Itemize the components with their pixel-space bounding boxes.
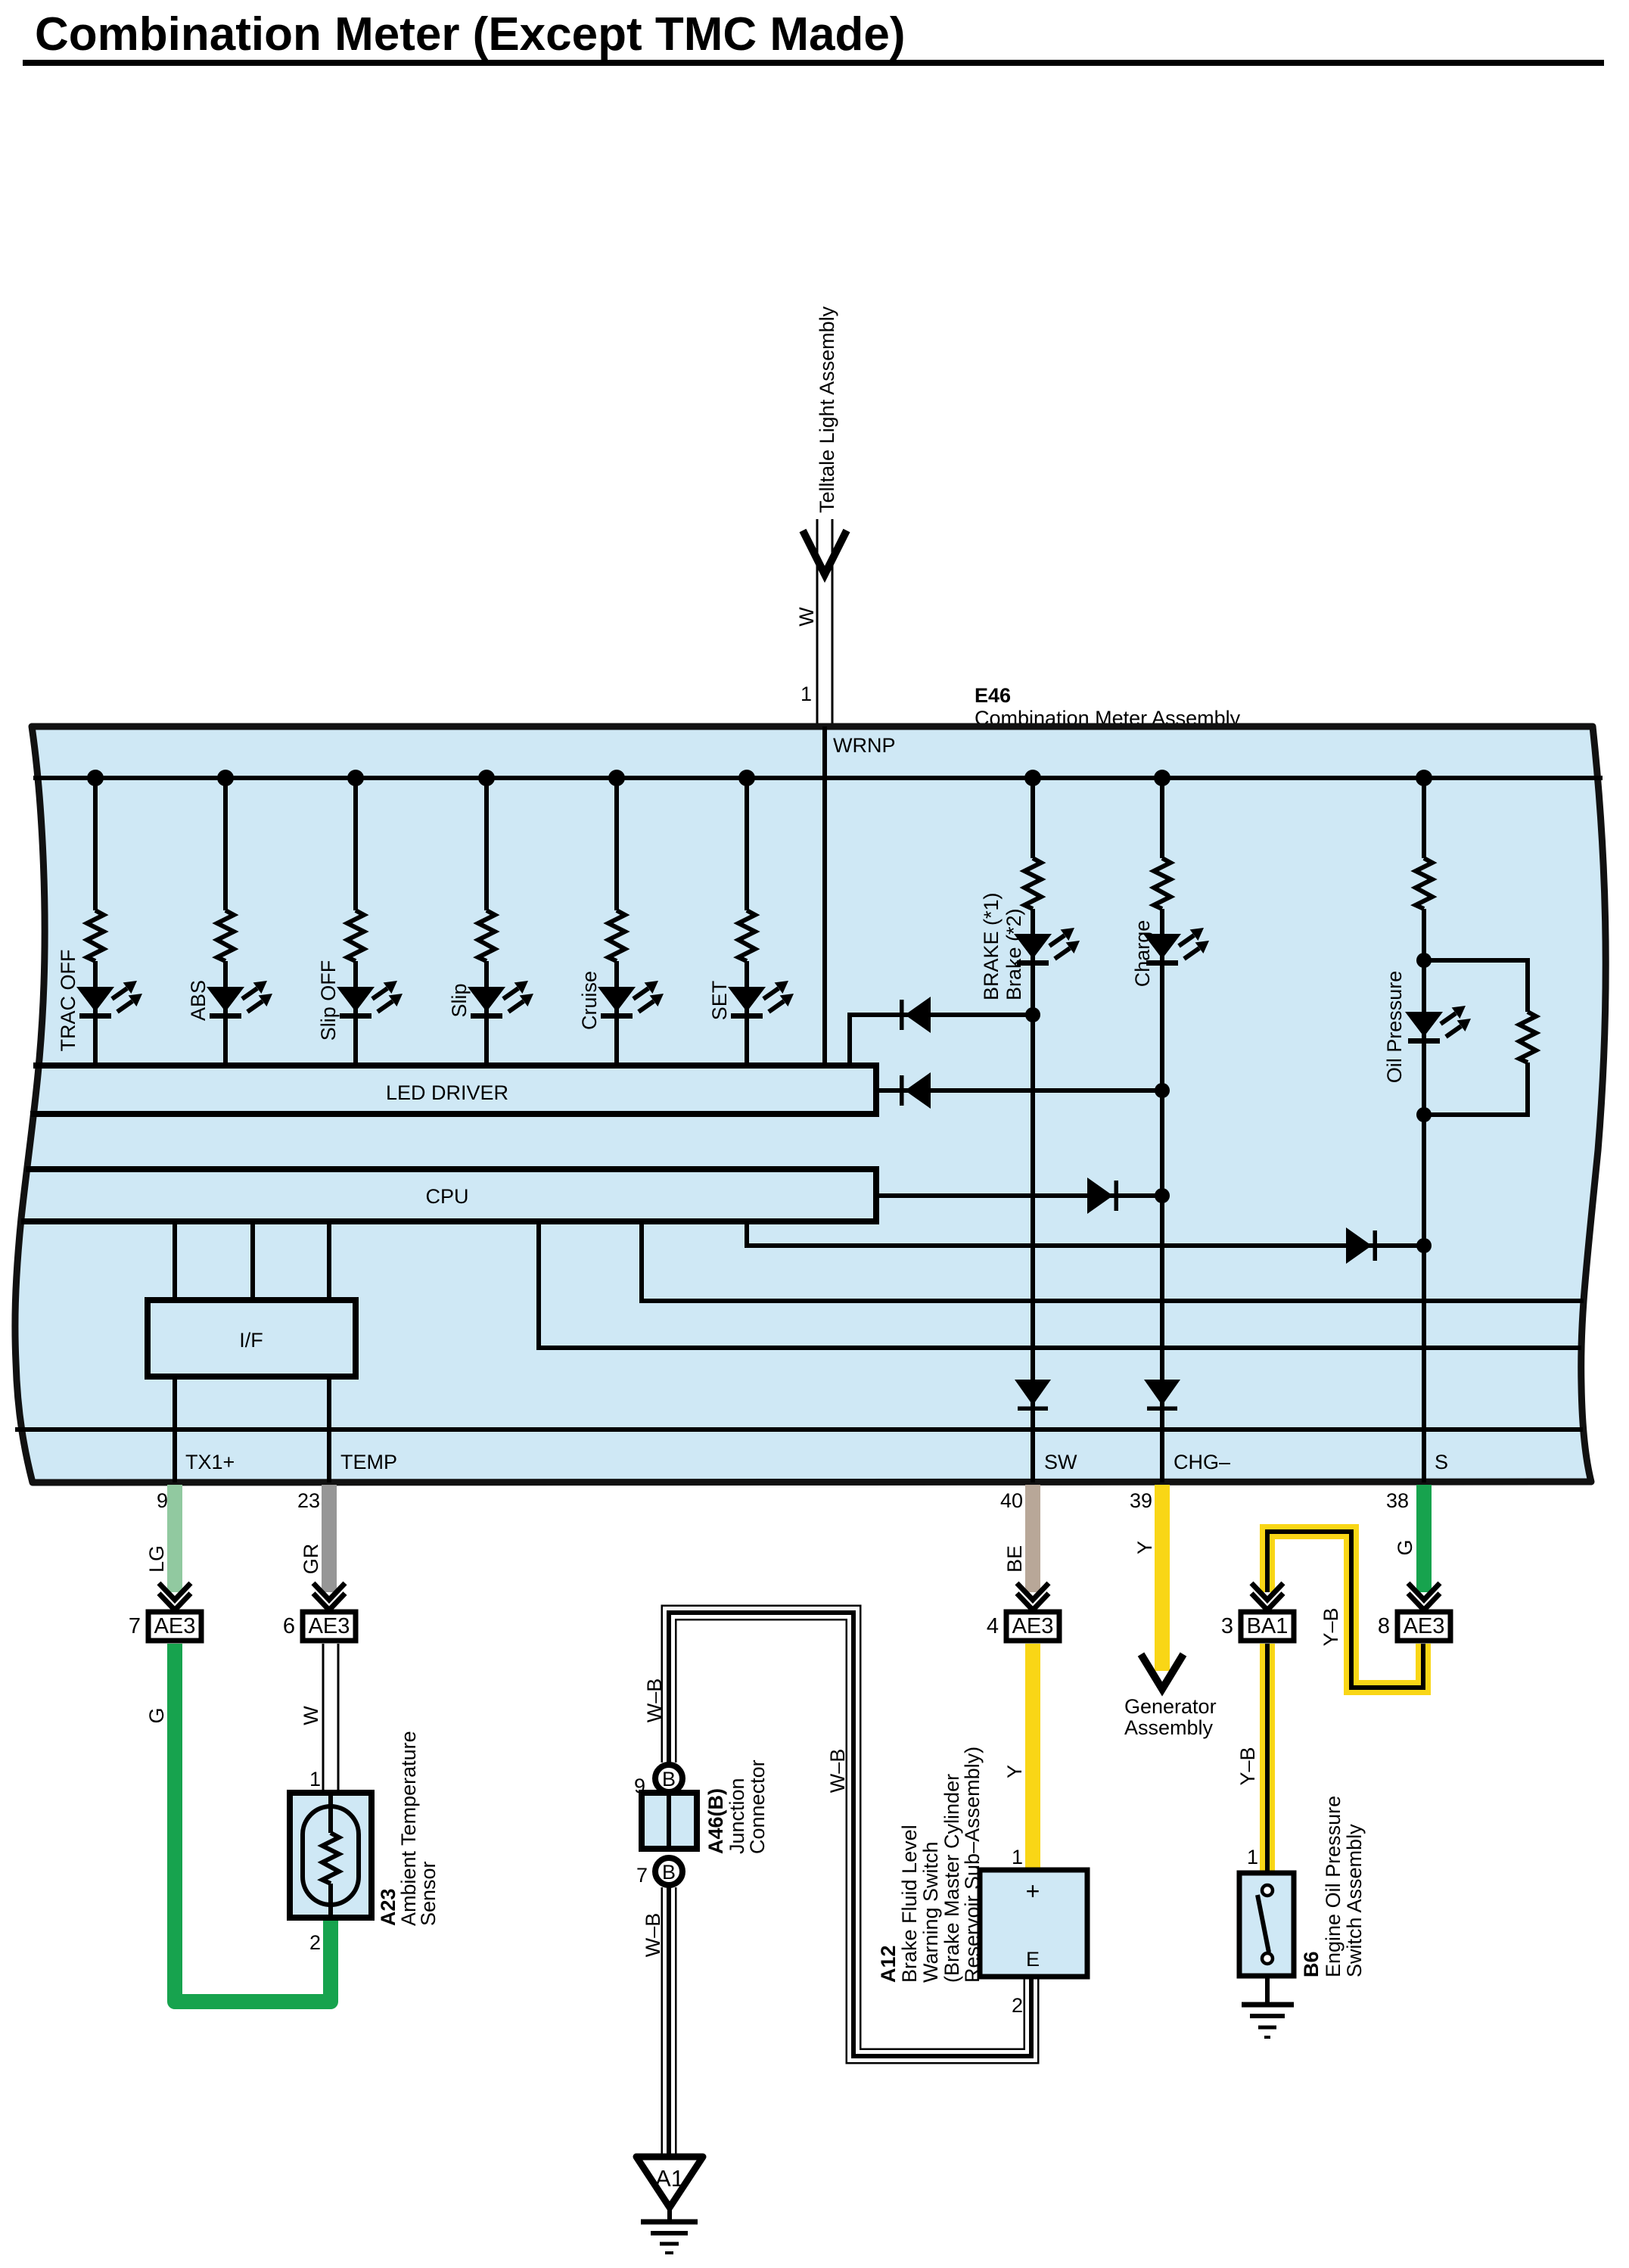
svg-text:CHG–: CHG– xyxy=(1174,1451,1230,1473)
svg-text:8: 8 xyxy=(1378,1614,1390,1638)
wire Oil Pressure/S column xyxy=(1422,778,1426,1482)
arrow from telltale light assembly xyxy=(803,530,847,574)
node junction Charge on WRNP bus xyxy=(1154,770,1170,786)
svg-text:Warning Switch: Warning Switch xyxy=(919,1841,942,1983)
svg-text:SW: SW xyxy=(1044,1451,1077,1473)
LED indicator BRAKE xyxy=(1014,928,1080,966)
svg-text:1: 1 xyxy=(309,1768,321,1790)
wire WRNP vertical from pin 1 xyxy=(822,726,827,1066)
wire Y-B from 3 BA1 to B6 pin 1 xyxy=(1260,1644,1275,1873)
svg-text:E46: E46 xyxy=(975,684,1011,707)
resistor TRAC_OFF xyxy=(87,910,104,961)
node junction Oil Pressure on WRNP bus xyxy=(1416,770,1432,786)
connector 3 BA1 xyxy=(1221,1612,1294,1641)
resistor BRAKE xyxy=(1024,858,1041,909)
svg-text:AE3: AE3 xyxy=(1012,1614,1054,1638)
LED indicator SET xyxy=(728,981,794,1019)
svg-text:BA1: BA1 xyxy=(1247,1614,1289,1638)
resistor Slip_OFF xyxy=(347,910,364,961)
wire CPU to I/F left xyxy=(173,1221,177,1300)
LED indicator Oil Pressure xyxy=(1405,1006,1471,1044)
wire from LED DRIVER top to diode D1 xyxy=(850,1015,1033,1066)
svg-text:7: 7 xyxy=(129,1614,141,1638)
connector 4 AE3 xyxy=(987,1612,1059,1641)
thermistor resistor inside A23 xyxy=(322,1833,339,1884)
node junction Charge/D2 xyxy=(1155,1083,1170,1098)
svg-text:E: E xyxy=(1026,1948,1040,1971)
wire BE (pin 40) xyxy=(1025,1485,1040,1592)
svg-text:1: 1 xyxy=(1012,1846,1023,1868)
resistor Charge xyxy=(1154,858,1170,909)
wire TX1+ from I/F to pin 9 xyxy=(173,1377,177,1482)
svg-text:Brake Fluid Level: Brake Fluid Level xyxy=(898,1825,921,1983)
wire branch TRAC_OFF xyxy=(93,778,98,1066)
svg-text:A12: A12 xyxy=(877,1945,900,1983)
LED indicator ABS xyxy=(207,981,272,1019)
svg-text:Generator: Generator xyxy=(1124,1695,1217,1718)
svg-text:G: G xyxy=(1394,1539,1416,1555)
svg-text:38: 38 xyxy=(1386,1489,1409,1512)
junction connector A46(B) box xyxy=(642,1793,697,1849)
svg-text:Switch Assembly: Switch Assembly xyxy=(1343,1824,1366,1977)
svg-text:TEMP: TEMP xyxy=(340,1451,397,1473)
svg-text:Telltale Light Assembly: Telltale Light Assembly xyxy=(816,306,838,513)
svg-text:Connector: Connector xyxy=(746,1759,769,1854)
svg-text:A23: A23 xyxy=(377,1888,399,1926)
title rule xyxy=(23,60,1604,66)
resistor Cruise xyxy=(608,910,625,961)
svg-text:4: 4 xyxy=(987,1614,999,1638)
svg-text:W: W xyxy=(795,607,818,627)
svg-text:3: 3 xyxy=(1221,1614,1233,1638)
resistor SET xyxy=(738,910,755,961)
brake fluid level warning switch A12 xyxy=(980,1870,1087,1977)
diode D6 on CHG- column (points down) xyxy=(1144,1380,1180,1411)
CPU block xyxy=(21,1166,876,1224)
connector 7 AE3 xyxy=(129,1612,201,1641)
wire from CPU bottom to diode D4 xyxy=(747,1221,1424,1246)
wire WRNP bus xyxy=(33,776,1603,780)
svg-text:6: 6 xyxy=(283,1614,295,1638)
wire oil parallel loop xyxy=(1424,960,1528,1115)
wire Y to generator assembly xyxy=(1155,1485,1170,1671)
wire CPU to I/F middle xyxy=(250,1221,255,1300)
diode D2 (points left) xyxy=(900,1072,931,1109)
I/F block xyxy=(148,1300,356,1377)
svg-text:TRAC OFF: TRAC OFF xyxy=(57,950,79,1052)
svg-text:Reservoir Sub–Assembly): Reservoir Sub–Assembly) xyxy=(961,1747,984,1983)
wire TEMP from I/F to pin 23 xyxy=(327,1377,331,1482)
svg-text:Assembly: Assembly xyxy=(1124,1716,1214,1739)
svg-text:I/F: I/F xyxy=(239,1329,263,1352)
svg-text:ABS: ABS xyxy=(187,980,210,1021)
svg-text:7: 7 xyxy=(636,1864,648,1887)
svg-text:W–B: W–B xyxy=(643,1678,666,1723)
svg-text:Sensor: Sensor xyxy=(417,1861,440,1926)
wire Charge/CHG- column xyxy=(1160,778,1164,1482)
svg-text:Junction: Junction xyxy=(726,1778,748,1854)
node junction BRAKE on WRNP bus xyxy=(1024,770,1041,786)
svg-text:TX1+: TX1+ xyxy=(185,1451,235,1473)
node junction Slip_OFF on WRNP bus xyxy=(347,770,364,786)
svg-text:23: 23 xyxy=(297,1489,320,1512)
terminal B pin 7 of A46(B) xyxy=(636,1858,682,1887)
wire LG (pin 9) xyxy=(167,1485,182,1592)
LED DRIVER block xyxy=(30,1062,876,1117)
node junction S/D4 xyxy=(1416,1238,1432,1253)
svg-text:B: B xyxy=(662,1768,676,1790)
wire W from telltale light assembly (double line) xyxy=(817,519,832,726)
wire W-B from A12 pin 2 to junction connector (white w/ black stripe) xyxy=(669,1613,1031,2056)
wire G (pin 38) xyxy=(1416,1485,1432,1592)
wire Y-B from 8 AE3 to 3 BA1 (yellow w/ black stripe) xyxy=(1267,1532,1423,1688)
svg-text:Y: Y xyxy=(1133,1541,1156,1554)
svg-text:39: 39 xyxy=(1130,1489,1152,1512)
LED indicator Slip xyxy=(468,981,533,1019)
svg-text:Y–B: Y–B xyxy=(1236,1747,1259,1785)
diode D5 on SW column (points down) xyxy=(1015,1380,1051,1411)
arrow to generator assembly xyxy=(1141,1654,1183,1689)
node junction Slip on WRNP bus xyxy=(478,770,495,786)
svg-text:AE3: AE3 xyxy=(1404,1614,1445,1638)
terminal B pin 9 of A46(B) xyxy=(634,1765,682,1797)
engine oil pressure switch B6 xyxy=(1239,1873,1294,1976)
node junction oil LED top xyxy=(1416,953,1432,968)
svg-text:W–B: W–B xyxy=(642,1913,664,1958)
arrow to connector AE3 pin 7 xyxy=(159,1583,191,1610)
svg-text:LED DRIVER: LED DRIVER xyxy=(386,1081,508,1104)
svg-text:9: 9 xyxy=(157,1489,168,1512)
svg-text:B: B xyxy=(662,1861,676,1884)
svg-text:AE3: AE3 xyxy=(309,1614,350,1638)
svg-text:Engine Oil Pressure: Engine Oil Pressure xyxy=(1322,1796,1345,1977)
svg-text:AE3: AE3 xyxy=(154,1614,196,1638)
svg-text:Y: Y xyxy=(1003,1765,1026,1778)
wire W-B from junction connector to ground A1 xyxy=(661,1887,677,2158)
svg-text:Combination Meter (Except TMC: Combination Meter (Except TMC Made) xyxy=(35,8,906,61)
svg-text:GR: GR xyxy=(300,1544,322,1575)
connector 8 AE3 xyxy=(1378,1612,1450,1641)
wire branch Slip_OFF xyxy=(353,778,358,1066)
node junction CHG-/D3 xyxy=(1155,1188,1170,1203)
svg-text:WRNP: WRNP xyxy=(833,734,896,757)
svg-text:BRAKE (*1): BRAKE (*1) xyxy=(980,892,1003,1000)
arrow to connector AE3 pin 8 xyxy=(1408,1583,1440,1610)
wire G from connector to A23 pin 2 xyxy=(175,1644,331,2002)
wire branch ABS xyxy=(223,778,228,1066)
svg-text:G: G xyxy=(145,1707,168,1723)
svg-text:W: W xyxy=(300,1706,322,1725)
LED indicator TRAC_OFF xyxy=(76,981,142,1019)
node junction oil LED bottom xyxy=(1416,1107,1432,1122)
node junction SET on WRNP bus xyxy=(738,770,755,786)
svg-text:Cruise: Cruise xyxy=(578,971,601,1030)
svg-text:2: 2 xyxy=(1012,1994,1023,2017)
node junction Cruise on WRNP bus xyxy=(608,770,625,786)
wire W from connector 6 AE3 to A23 pin 1 (double line) xyxy=(323,1644,338,1794)
wire Y from connector to A12 pin 1 xyxy=(1025,1644,1040,1870)
svg-text:S: S xyxy=(1435,1451,1448,1473)
combination meter assembly box E46 xyxy=(15,726,1606,1482)
ambient temperature sensor A23 xyxy=(290,1793,371,1918)
diode D3 (points right) xyxy=(1087,1178,1118,1214)
node junction TRAC_OFF on WRNP bus xyxy=(87,770,104,786)
LED indicator Cruise xyxy=(598,981,664,1019)
svg-text:2: 2 xyxy=(309,1931,321,1954)
ground A1 xyxy=(636,2157,703,2253)
wire branch Cruise xyxy=(614,778,619,1066)
diode D1 (points left) xyxy=(900,997,931,1033)
wire CPU output row 2 xyxy=(539,1221,1581,1348)
wire CPU output row 1 xyxy=(642,1221,1584,1301)
wire GR (pin 23) xyxy=(322,1485,337,1592)
svg-text:1: 1 xyxy=(801,683,812,705)
resistor oil parallel xyxy=(1519,1012,1536,1062)
wire BRAKE/SW column xyxy=(1031,778,1035,1482)
ground below B6 xyxy=(1242,2005,1294,2037)
wire branch Slip xyxy=(484,778,489,1066)
resistor Oil Pressure top xyxy=(1416,858,1432,909)
svg-text:A1: A1 xyxy=(655,2165,684,2192)
resistor Slip xyxy=(478,910,495,961)
wire branch SET xyxy=(745,778,749,1066)
svg-text:Charge: Charge xyxy=(1131,920,1154,988)
arrow to connector AE3 pin 4 xyxy=(1017,1583,1049,1610)
arrow to connector AE3 pin 6 xyxy=(313,1583,345,1610)
wire from CPU right to diode D3 xyxy=(876,1193,1162,1198)
connector 6 AE3 xyxy=(283,1612,356,1641)
node junction SW/BRAKE xyxy=(1025,1007,1040,1022)
svg-text:Brake (*2): Brake (*2) xyxy=(1003,908,1025,1000)
wire from LED DRIVER right to diode D2 xyxy=(876,1088,1162,1093)
svg-text:(Brake Master Cylinder: (Brake Master Cylinder xyxy=(940,1774,963,1983)
svg-text:BE: BE xyxy=(1003,1545,1026,1573)
arrow to connector BA1 pin 3 xyxy=(1251,1583,1283,1610)
svg-text:SET: SET xyxy=(708,981,731,1021)
svg-text:+: + xyxy=(1026,1878,1040,1905)
resistor ABS xyxy=(217,910,234,961)
svg-text:Slip OFF: Slip OFF xyxy=(317,960,340,1041)
svg-text:Slip: Slip xyxy=(448,983,471,1017)
LED indicator Slip_OFF xyxy=(337,981,403,1019)
LED indicator Charge xyxy=(1143,928,1209,966)
pin strip line xyxy=(15,1427,1583,1432)
svg-text:B6: B6 xyxy=(1300,1951,1323,1977)
svg-text:Oil Pressure: Oil Pressure xyxy=(1383,971,1406,1084)
svg-text:40: 40 xyxy=(1000,1489,1023,1512)
svg-text:1: 1 xyxy=(1247,1846,1258,1868)
diode D4 (points right) xyxy=(1346,1227,1377,1264)
wire B6 to ground xyxy=(1265,1976,1270,2003)
svg-text:CPU: CPU xyxy=(425,1185,468,1208)
svg-text:9: 9 xyxy=(634,1775,645,1797)
svg-text:LG: LG xyxy=(145,1545,168,1573)
svg-text:A46(B): A46(B) xyxy=(704,1788,727,1854)
wire CPU to I/F right xyxy=(327,1221,331,1300)
node junction ABS on WRNP bus xyxy=(217,770,234,786)
svg-text:Y–B: Y–B xyxy=(1320,1607,1342,1646)
svg-text:W–B: W–B xyxy=(826,1749,849,1794)
